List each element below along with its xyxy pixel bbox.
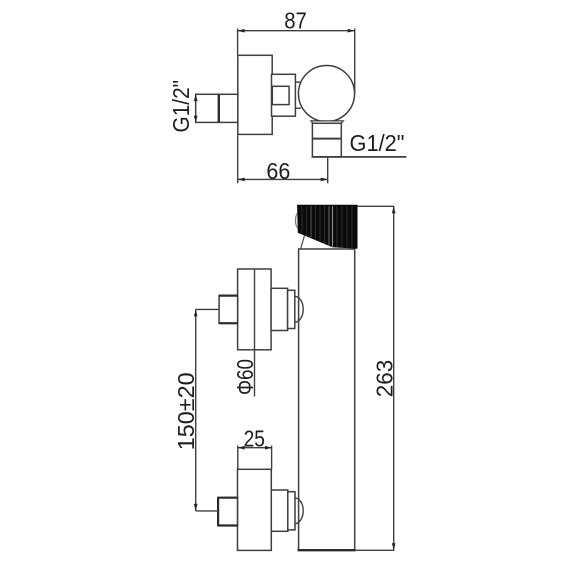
upper connector collar xyxy=(288,290,295,328)
outlet collar trapezoid under knob xyxy=(311,121,343,123)
valve body (top view) xyxy=(238,55,272,134)
outlet connector rect (G1/2 bottom) xyxy=(312,123,407,157)
svg-text:66: 66 xyxy=(266,158,290,184)
lower inlet pipe (side view) xyxy=(218,498,238,526)
dimension 66 xyxy=(238,135,328,184)
G1/2" label right xyxy=(350,130,405,156)
dimension 150±20 xyxy=(173,309,219,511)
cartridge square detail xyxy=(272,86,289,104)
upper connector wall side: cap xyxy=(271,288,288,330)
svg-text:150±20: 150±20 xyxy=(173,372,199,450)
G1/2" label left (rotated) xyxy=(168,80,194,133)
lower wall connector: flange xyxy=(238,469,272,550)
svg-text:25: 25 xyxy=(244,425,265,451)
lower connector dome xyxy=(295,498,303,524)
knurled handle (black) xyxy=(298,205,357,248)
svg-text:263: 263 xyxy=(371,360,397,398)
svg-text:Φ60: Φ60 xyxy=(232,359,258,395)
lower connector wall side: cap xyxy=(271,490,288,531)
knurled handle bulge (left arc) xyxy=(295,213,301,228)
neck strip between housing and knob xyxy=(295,82,301,108)
knob circle (top view) xyxy=(298,66,354,122)
mixer body (side view) xyxy=(298,249,356,550)
lower connector collar xyxy=(288,492,295,530)
upper connector dome xyxy=(295,296,303,322)
svg-text:87: 87 xyxy=(284,7,307,33)
svg-text:G1/2": G1/2" xyxy=(350,130,405,156)
dimension 263 xyxy=(355,206,398,550)
svg-text:G1/2": G1/2" xyxy=(168,80,194,133)
upper inlet pipe (side view) xyxy=(219,295,238,323)
handle neck line xyxy=(301,236,305,249)
inlet pipe (top view, left) xyxy=(194,94,238,123)
cartridge housing (top view) xyxy=(272,74,296,116)
dimension φ60 label xyxy=(232,359,258,395)
dimension 87 xyxy=(238,7,355,93)
upper connector centerline / φ60 leader xyxy=(254,269,256,397)
upper wall connector: flange xyxy=(238,269,272,350)
dimension 25 xyxy=(238,425,272,469)
